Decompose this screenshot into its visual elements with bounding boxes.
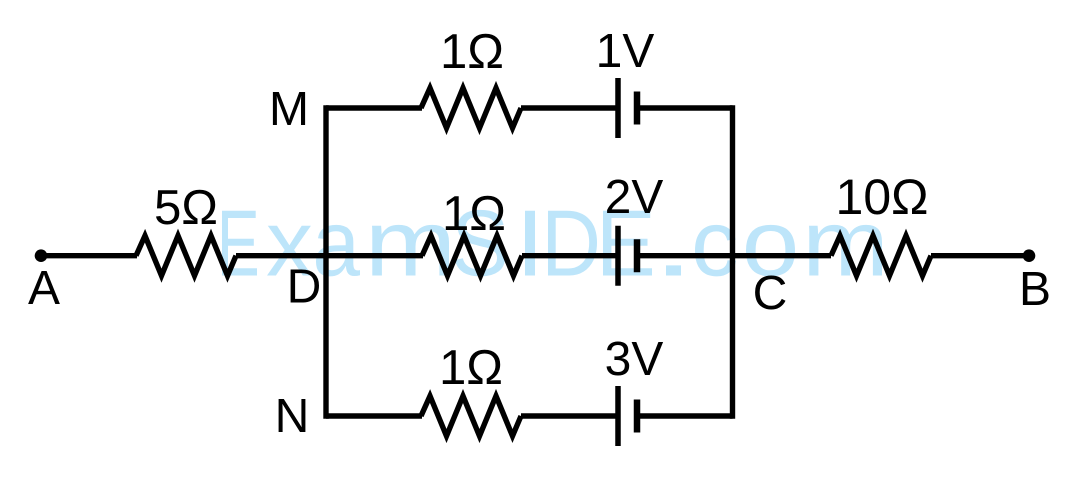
value label 1Ω top — [444, 34, 502, 68]
battery V1 1V long plate — [615, 78, 621, 138]
watermark Exam — [222, 211, 449, 277]
wire R4 to battery V3 — [521, 413, 618, 418]
wire N to R4 — [326, 413, 422, 418]
wire vertical node D column M-D-N — [323, 108, 328, 416]
node label B — [1023, 272, 1049, 305]
wire node C to R5 — [733, 253, 832, 258]
node label N — [279, 399, 306, 432]
resistor R5 10ohm zigzag — [831, 236, 931, 276]
wire node D to R2 — [326, 253, 423, 258]
watermark .com — [666, 225, 882, 277]
wire R3 to battery V1 — [521, 105, 618, 110]
value label 3V — [607, 342, 664, 376]
battery V1 1V short plate — [634, 92, 641, 125]
wire battery V1 to top-right corner — [637, 105, 733, 110]
wire R2 to battery V2 — [522, 253, 618, 258]
node label A — [28, 271, 60, 304]
resistor R4 1ohm bottom zigzag — [421, 396, 521, 436]
value label 1Ω bottom — [443, 350, 501, 384]
wire M to R3 — [326, 105, 422, 110]
node label C — [755, 276, 785, 310]
wire R5 to B — [931, 253, 1029, 258]
wire vertical node C column — [730, 108, 735, 416]
resistor R3 1ohm top zigzag — [421, 88, 521, 128]
wire battery V3 to bottom-right corner — [637, 413, 733, 418]
value label 1Ω middle — [446, 196, 504, 230]
wire A to R1 — [41, 253, 137, 258]
terminal dot B — [1023, 249, 1036, 262]
value label 5Ω — [156, 190, 216, 225]
resistor R2 1ohm middle zigzag — [422, 236, 522, 276]
battery V2 2V short plate — [634, 239, 641, 272]
terminal dot A — [35, 249, 48, 262]
battery V2 2V long plate — [615, 226, 621, 286]
watermark SIDE — [455, 210, 652, 277]
value label 10Ω — [839, 179, 926, 214]
resistor R1 5ohm zigzag — [136, 236, 236, 276]
battery V3 3V long plate — [615, 386, 621, 446]
value label 2V — [607, 180, 663, 214]
node label D — [291, 270, 319, 303]
battery V3 3V short plate — [634, 400, 641, 433]
wire battery V2 to node C — [637, 253, 733, 258]
node label M — [273, 92, 305, 125]
value label 1V — [599, 34, 654, 67]
wire R1 to node D — [236, 253, 326, 258]
